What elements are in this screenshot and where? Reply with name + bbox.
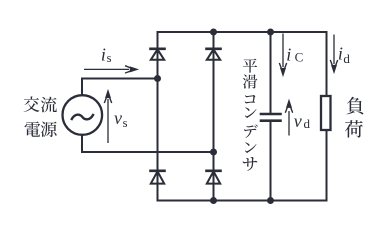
wire top rail (bridge output + to capacitor and load) <box>158 31 327 33</box>
arrow i_C (capacitor current, downward) <box>279 34 286 76</box>
svg-text:i: i <box>338 43 343 63</box>
svg-text:s: s <box>107 51 112 65</box>
AC source sine symbol <box>72 115 93 120</box>
label v_d <box>294 111 311 131</box>
diode D3 (bottom-left) <box>151 171 165 184</box>
wire right bridge column <box>213 32 215 201</box>
arrow i_d (load current, downward) <box>330 35 337 73</box>
diode D1 (top-left) <box>151 49 165 60</box>
svg-text:d: d <box>343 51 350 66</box>
label i_C <box>286 44 303 64</box>
wire bottom rail (bridge output - to capacitor and load) <box>158 200 327 202</box>
node: top rail / capacitor junction <box>267 29 274 36</box>
svg-text:s: s <box>123 116 128 130</box>
wire load column upper <box>326 32 328 96</box>
node: bottom rail / capacitor junction <box>267 197 274 204</box>
label i_d <box>338 43 351 66</box>
svg-text:d: d <box>304 116 311 131</box>
wire capacitor column lower <box>270 122 272 201</box>
label 平滑コンデンサ (smoothing capacitor), vertical <box>243 59 258 171</box>
wire left bridge column <box>157 32 159 201</box>
diode D2 (top-right) <box>207 49 221 60</box>
svg-text:v: v <box>294 111 302 131</box>
load resistor box <box>321 96 331 130</box>
label 交流電源 (AC power source) <box>24 96 57 137</box>
AC source circle <box>63 95 103 135</box>
svg-text:i: i <box>286 44 291 64</box>
label 負荷 (load), vertical <box>345 97 363 138</box>
capacitor C (smoothing) plates <box>261 114 281 121</box>
diode D4 (bottom-right) <box>207 171 221 184</box>
svg-text:i: i <box>101 44 106 64</box>
wire AC source bottom terminal to bridge right midpoint <box>82 135 214 152</box>
arrow v_s (source voltage, upward) <box>104 91 111 143</box>
label v_s <box>114 108 128 130</box>
node: bottom rail / right column junction <box>210 197 217 204</box>
svg-text:v: v <box>114 108 122 128</box>
node: AC top / left bridge midpoint junction <box>154 75 161 82</box>
wire load column lower <box>326 130 328 201</box>
arrow v_d (output voltage, upward) <box>285 101 292 136</box>
label i_s <box>101 44 112 65</box>
node: top rail / right column junction <box>210 29 217 36</box>
node: AC bottom / right bridge midpoint junction <box>210 149 217 156</box>
wire AC source top terminal to bridge left midpoint <box>82 79 158 96</box>
arrow i_s (source current, rightward) <box>84 66 137 73</box>
wire capacitor column upper <box>270 32 272 113</box>
svg-text:C: C <box>295 49 304 64</box>
